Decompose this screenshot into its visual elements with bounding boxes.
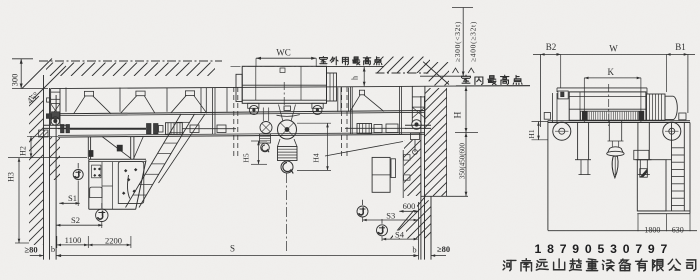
cab frame posts [101, 162, 103, 210]
rope guard arc [277, 115, 300, 117]
aux rope guide block [260, 134, 271, 143]
rail fixing bracket left [39, 130, 49, 137]
dim H4 [297, 122, 331, 124]
hook position S3 [357, 206, 368, 217]
hook position S2 [96, 209, 108, 221]
corbel top line [421, 195, 468, 197]
bearing blocks [190, 125, 199, 133]
frame left edge [547, 121, 549, 231]
bottom dims 1800 / 630 [637, 214, 639, 232]
drive shaft thick section [70, 128, 146, 130]
hoist trolley wheels [248, 103, 259, 108]
indoor ceiling line (dash-dot) [376, 72, 429, 74]
runway rail right [405, 124, 431, 126]
right runway wheel [412, 120, 422, 130]
aux hook [261, 143, 270, 152]
hoist right motor [327, 73, 337, 101]
right frame edge [689, 123, 691, 214]
rail brackets on wall [404, 155, 411, 160]
right end carriage frame [411, 86, 413, 123]
platform double line [637, 210, 690, 212]
underline indoor highest point [456, 85, 530, 87]
right wall verticals [420, 96, 422, 260]
girder break lines (dashed) [233, 87, 235, 159]
left step box [558, 91, 568, 99]
trolley top plate [557, 87, 647, 89]
bracket dark block [561, 92, 564, 97]
right wheel buffer bracket [679, 113, 686, 120]
hook position S4 [377, 225, 388, 236]
coupling discs left [61, 125, 65, 133]
festoon wire triangle supports [84, 91, 93, 96]
power feed bracket below right carriage [411, 133, 420, 140]
small box on hoist top [280, 68, 285, 73]
electrical box symbol [640, 169, 648, 178]
bottom border line of right view [548, 230, 697, 232]
walkway railing top line / indoor highest point line [51, 86, 530, 89]
right shaft couplings [374, 125, 382, 133]
hook shank blade [612, 156, 618, 178]
dim >=80 left [30, 255, 44, 257]
dim >=300 / >=400 [452, 7, 473, 9]
label outdoor-highest-point [319, 57, 327, 64]
platform box below right girder [637, 160, 666, 211]
dim >=80 right [431, 255, 446, 257]
main girders cross-section webs [577, 123, 579, 160]
ladder [671, 123, 673, 211]
dim H2 [27, 135, 58, 137]
body inner divider [579, 92, 581, 120]
dim WC [255, 58, 257, 66]
dim h [363, 67, 365, 86]
corbel diagonal + hatch [391, 197, 426, 239]
motor end bell [665, 96, 677, 119]
dim H3 [15, 242, 29, 244]
main hook [281, 161, 293, 173]
cab left window [92, 165, 101, 178]
coupling discs mid [147, 124, 152, 134]
trolley body (end view) [569, 92, 646, 120]
buffer to wall [47, 98, 51, 102]
hoist left gearbox [236, 74, 242, 101]
left wall verticals (rail + wall face) [43, 75, 45, 260]
left bracket + buffer [552, 93, 554, 122]
cabinet handle [391, 159, 396, 178]
dim H1 [532, 121, 549, 123]
dim H5 [251, 140, 267, 142]
dim 350(450)600 rail-to-girder [465, 133, 467, 197]
indoor ceiling underside line [420, 75, 464, 77]
cab brace left [102, 137, 131, 159]
dim S (span) [56, 255, 418, 257]
left end carriage tower [50, 89, 52, 126]
runway rail left [44, 124, 67, 126]
cab brace right [134, 136, 144, 159]
hoist motor (end view) [647, 94, 666, 120]
cab right panel (glass) [118, 162, 144, 204]
trolley travel wheels [553, 122, 571, 140]
dim S2 [101, 222, 103, 228]
dim 1100 [56, 236, 58, 248]
shaft gearbox striped [166, 123, 183, 135]
hook hanger plates [608, 121, 610, 141]
hoist mid line [242, 84, 326, 86]
main hook crosshead (ribbed) [278, 147, 298, 161]
left runway wheel [51, 117, 59, 125]
hoist centerlines [231, 65, 346, 67]
dim 600 [401, 202, 417, 211]
cab lifting lug [89, 151, 93, 157]
underline outdoor highest point [316, 65, 384, 67]
small box under hoist [284, 106, 291, 111]
dim S3 [362, 218, 364, 223]
cab hangers [130, 137, 132, 160]
electrical cabinet [372, 157, 390, 192]
girder top flange lines [58, 111, 425, 114]
festoon wire to cabinet [325, 142, 403, 157]
B2 extension line [539, 54, 541, 127]
company name: Henan Yuanshan Lifting Equipment Co., Ltd. [503, 260, 516, 270]
hook centerline [285, 173, 287, 252]
cab joystick curve [128, 175, 130, 199]
stairs from walkway to cab floor [126, 114, 182, 208]
shaft motor right (finned) [357, 124, 372, 134]
label indoor-highest-point [462, 75, 471, 83]
girder top flanges (cross-section) [548, 120, 690, 122]
hook position S1 [73, 170, 83, 180]
aux pulley [260, 122, 272, 134]
hoist trolley body [242, 66, 326, 103]
dim S4 [381, 236, 383, 241]
dim K [583, 78, 585, 123]
dim S1 [77, 181, 79, 207]
wall corner 45-deg chamfer lines [22, 59, 52, 89]
girder bottom flange lines [58, 133, 425, 136]
trolley centerline [608, 84, 610, 126]
cab outline [89, 158, 146, 160]
cab console box [90, 187, 102, 198]
drive shaft thin sections [58, 128, 70, 130]
cab trolley block [117, 145, 122, 151]
wire ropes [262, 108, 264, 122]
ceiling line top-left (dash-dot) [39, 60, 222, 62]
dim 300 (ceiling to crane top) [12, 58, 33, 60]
rope drum with coils [581, 111, 644, 120]
railing posts [65, 88, 67, 112]
main pulley block [278, 120, 297, 139]
wheel block dark fills [52, 112, 60, 119]
ceiling corner diagonal [423, 62, 449, 85]
hook crosshead dome (end view) [608, 147, 623, 153]
dim 2200 [88, 244, 131, 246]
dim H [455, 132, 478, 134]
